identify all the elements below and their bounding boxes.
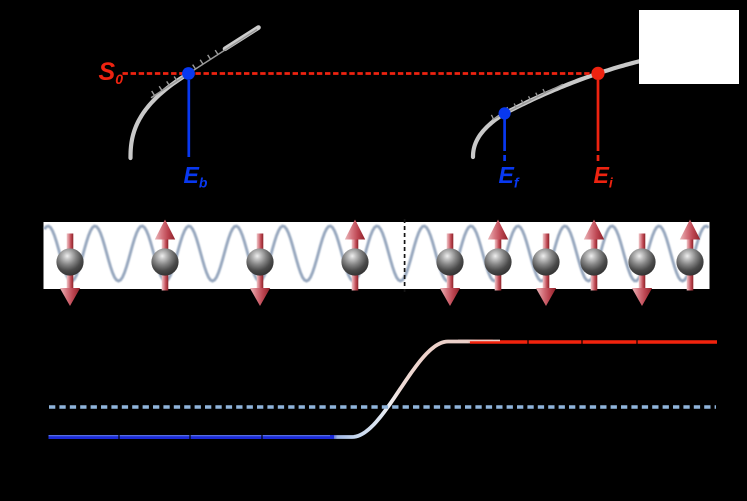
blue line top highlight [49, 435, 331, 437]
atom sphere at x=546 [532, 248, 559, 275]
spin-up arrow at x=355 [345, 220, 365, 291]
red dashed S0 line [123, 72, 599, 75]
legend box (blank white) [639, 10, 739, 84]
atom sphere at x=594 [580, 248, 607, 275]
tangent hatch ticks right [491, 89, 545, 119]
tangent line at E_f [492, 84, 563, 120]
atom sphere at x=450 [436, 248, 463, 275]
lattice wave core [45, 226, 709, 281]
atom sphere at x=260 [246, 248, 273, 275]
atom sphere at x=165 [151, 248, 178, 275]
spin-up arrow at x=690 [680, 220, 700, 291]
spin chain band [44, 222, 710, 289]
pale pink remnant above red [458, 339, 500, 341]
atom sphere at x=498 [484, 248, 511, 275]
blue vertical line at E_b [187, 80, 190, 157]
tick notches on red line [528, 340, 637, 346]
entropy curve left: upper thick segment [225, 28, 259, 49]
point E_b [182, 67, 195, 80]
spin-up arrow at x=594 [584, 220, 604, 291]
tangent hatch ticks left [152, 50, 218, 95]
point E_f [499, 107, 511, 119]
spin-down arrow at x=260 [250, 234, 270, 307]
spin-down arrow at x=70 [60, 234, 80, 307]
dashed separator [404, 219, 406, 292]
atom sphere at x=70 [56, 248, 83, 275]
tangent line at E_b [151, 29, 257, 97]
initial-state blue line [49, 435, 335, 439]
point E_i [591, 67, 604, 80]
spin-up arrow at x=498 [488, 220, 508, 291]
quench sigmoid curve [316, 342, 492, 438]
blue vertical line at E_f [503, 119, 506, 161]
spin-down arrow at x=450 [440, 234, 460, 307]
entropy curve (before quench, left) [131, 74, 189, 159]
spin-up arrow at x=165 [155, 220, 175, 291]
atom sphere at x=355 [341, 248, 368, 275]
atom sphere at x=642 [628, 248, 655, 275]
red vertical line at E_i [597, 80, 600, 161]
atom sphere at x=690 [676, 248, 703, 275]
spin-down arrow at x=642 [632, 234, 652, 307]
entropy curve (after quench, right) [473, 61, 641, 157]
final-state red line [470, 340, 717, 344]
spin-down arrow at x=546 [536, 234, 556, 307]
lattice wave halo [45, 226, 709, 281]
tick notches on blue line [119, 434, 262, 440]
equilibrium dashed line [49, 405, 716, 409]
